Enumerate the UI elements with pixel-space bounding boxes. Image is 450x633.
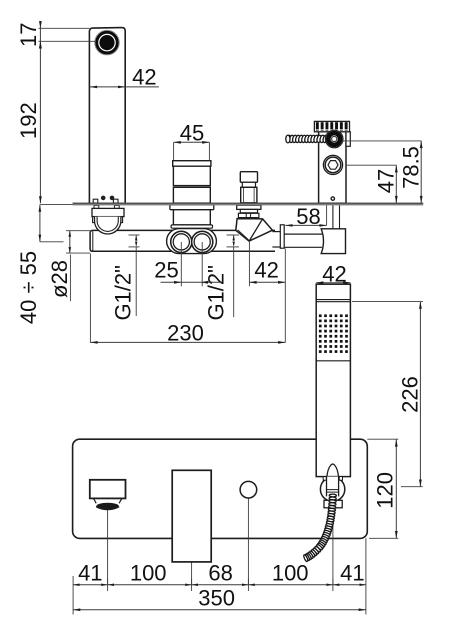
spout column outline <box>89 28 125 204</box>
dim line 45 <box>174 141 210 143</box>
dim line bottom row <box>73 584 366 586</box>
wire manifold tube outline <box>90 230 275 251</box>
spout aerator outer faint ring <box>95 30 120 55</box>
diverter cone body <box>236 219 273 242</box>
arrow dia28 top <box>69 231 72 237</box>
deck mounting surface <box>73 203 424 206</box>
hose stub end cap <box>286 135 290 143</box>
leader shower center <box>332 505 334 585</box>
spout clamp plate <box>92 208 124 216</box>
holder knurled cap <box>314 121 349 131</box>
bore line top left G12 <box>129 234 140 236</box>
wire cone-to-flange top <box>272 231 280 233</box>
deck top edge line <box>73 202 424 204</box>
bore line top right G12 <box>227 234 240 236</box>
diverter nut <box>238 213 259 217</box>
dim line 47 <box>395 165 397 203</box>
node right port circle inner <box>194 234 210 250</box>
ext line hose level <box>343 140 422 142</box>
control plate front <box>172 470 211 562</box>
knurl bars <box>316 122 319 131</box>
wire outlet pipe bottom <box>284 246 322 248</box>
arrow 42w right <box>343 281 350 284</box>
arrow 40-55 top <box>39 205 42 212</box>
spout aerator black disc <box>99 35 114 50</box>
cap hook left <box>175 166 177 169</box>
spout front lower lip <box>96 507 119 510</box>
clamp foot left <box>93 217 99 223</box>
holder neck step lower <box>327 491 339 493</box>
hose nut center <box>332 136 337 141</box>
dim line 42 spout <box>90 86 159 88</box>
cone left edge double line <box>238 230 249 240</box>
left G12 arrow up <box>135 235 137 240</box>
holder side tab <box>346 132 350 147</box>
left G12 leader <box>135 247 137 316</box>
node ports capsule <box>167 229 217 254</box>
ext line hex boss level <box>346 164 397 166</box>
ext line tube left end <box>89 254 91 343</box>
outlet pipe flange ring <box>280 225 284 248</box>
arrow 58 right <box>319 224 326 227</box>
leader spout front center <box>107 510 109 585</box>
arrow 350 right <box>359 608 366 611</box>
wire drop pipe right <box>339 205 341 229</box>
left G12 mini dim line <box>135 235 137 247</box>
clamp foot right <box>116 217 122 223</box>
arrow 47 top <box>395 165 398 172</box>
spout front mouth ellipse <box>96 503 119 510</box>
dim line 17 <box>39 21 41 49</box>
diverter collar <box>240 209 257 212</box>
svg-text:230: 230 <box>167 321 204 346</box>
arrow 25 right <box>201 281 208 284</box>
arrow 42d left <box>249 281 256 284</box>
right G12 arrow down <box>233 242 235 247</box>
arrow 226 bottom <box>419 480 422 487</box>
leader left port center <box>180 242 182 286</box>
arrow 42 spout left <box>90 86 97 89</box>
dim line 350 <box>73 609 366 611</box>
dim line 120 <box>395 439 397 538</box>
wire tube left end cap line <box>92 231 94 250</box>
spout base screw left <box>101 196 105 200</box>
clamp saddle inner arc <box>97 217 118 232</box>
knurl lower gap line <box>315 129 349 130</box>
cartridge retaining bar <box>171 225 212 228</box>
svg-text:41: 41 <box>340 560 364 585</box>
arrow 45 left <box>174 141 181 144</box>
dim line 78.5 <box>420 141 422 203</box>
dim line 25 <box>161 281 223 283</box>
svg-text:42: 42 <box>254 258 278 283</box>
dim line 230 <box>90 341 285 343</box>
ext line 58 right <box>326 205 328 225</box>
arrow 350 left <box>73 608 80 611</box>
ext line wand seam <box>352 301 423 303</box>
ext line tube top <box>66 230 90 232</box>
stem inner line right <box>253 188 255 202</box>
ext line aerator level <box>39 40 96 42</box>
leader control plate center <box>191 562 193 585</box>
cap hook right <box>206 166 208 169</box>
svg-text:40 ÷ 55: 40 ÷ 55 <box>16 251 41 324</box>
svg-text:ø28: ø28 <box>47 260 72 298</box>
ext line holder center <box>401 486 423 488</box>
svg-text:47: 47 <box>374 169 399 193</box>
arrow 226 top <box>419 302 422 309</box>
svg-text:120: 120 <box>373 472 398 509</box>
stem inner line left <box>243 188 245 202</box>
arrow dia28 bottom <box>69 247 72 253</box>
arrow 230 right <box>278 341 285 344</box>
ext line tube bottom <box>66 252 90 254</box>
arrow 42 spout right <box>118 86 125 89</box>
arrow 120 bottom <box>395 531 398 538</box>
svg-text:25: 25 <box>154 258 178 283</box>
cartridge seam line <box>173 186 210 188</box>
spout fixing rod right <box>114 205 119 208</box>
spout fixing rod left <box>94 205 99 208</box>
nut flat mark right <box>250 214 252 218</box>
cartridge top cap <box>173 161 211 167</box>
ext line cartridge left <box>173 142 175 160</box>
outlet hex <box>328 161 338 170</box>
shower wand front <box>316 284 350 476</box>
hose nut outer ring <box>325 130 343 148</box>
underline dia28 <box>69 255 71 302</box>
wire drop pipe left <box>332 205 334 229</box>
right G12 leader <box>233 247 235 317</box>
leader knob center <box>247 498 249 585</box>
holder neck right line <box>338 477 340 497</box>
arrow 17 bottom <box>39 41 42 48</box>
spout base nub left <box>93 199 98 203</box>
arrow 42d right <box>278 281 285 284</box>
svg-text:42: 42 <box>322 262 346 287</box>
diverter escutcheon <box>237 205 261 209</box>
svg-text:226: 226 <box>397 376 422 413</box>
dim line dia28 <box>69 231 71 253</box>
svg-text:G1/2": G1/2" <box>111 265 136 321</box>
bottom row tick marks <box>107 579 109 592</box>
wand seam upper <box>316 299 350 301</box>
ext line cone apex <box>248 242 250 286</box>
spout aerator thick ring <box>97 32 118 53</box>
holder neck step upper <box>327 489 339 491</box>
spout front taper <box>94 498 122 503</box>
arrow 78.5 top <box>420 141 423 148</box>
nut flat mark left <box>245 214 247 218</box>
svg-text:100: 100 <box>130 560 167 585</box>
holder ring <box>320 477 344 501</box>
spout base screw right <box>110 196 114 200</box>
arrow 42w left <box>316 281 323 284</box>
bottom row arrows <box>73 584 79 587</box>
svg-text:17: 17 <box>16 23 41 47</box>
arrow 40-55 bottom <box>39 235 42 242</box>
clamp saddle outer arc <box>95 217 121 234</box>
holder top clip right <box>339 477 342 481</box>
svg-text:G1/2": G1/2" <box>204 265 229 321</box>
wand handle teardrop <box>327 464 339 477</box>
wand spray panel bottom line <box>316 360 350 362</box>
diverter knob stem <box>241 187 257 203</box>
leader right port center <box>201 242 203 286</box>
holder neck left line <box>326 477 328 497</box>
hose stub corrugated ribs <box>286 135 292 143</box>
cartridge under-deck body <box>173 210 210 225</box>
right G12 mini dim line <box>233 235 235 247</box>
svg-text:68: 68 <box>208 560 232 585</box>
diverter knob neck <box>242 182 255 187</box>
ext line plate right edge <box>365 538 367 614</box>
cartridge lower section <box>173 187 210 203</box>
arrow 45 right <box>202 141 209 144</box>
spout base nub right <box>113 199 118 203</box>
hose nut dark ring <box>328 133 340 145</box>
wall plate front <box>73 439 368 538</box>
wire outlet pipe top <box>284 233 322 235</box>
svg-text:100: 100 <box>272 560 309 585</box>
ext line spout top <box>39 27 90 29</box>
cartridge deck flange <box>170 205 214 210</box>
holder neck mask <box>327 477 339 497</box>
diverter knob cap <box>240 172 257 183</box>
holder body screw dot <box>331 197 334 200</box>
svg-text:58: 58 <box>296 204 320 229</box>
right G12 arrow up <box>233 235 235 240</box>
outlet hex boss inner ring <box>325 157 341 173</box>
node right port circle outer <box>192 231 213 252</box>
left G12 arrow down <box>135 242 137 247</box>
dim line 192 <box>39 41 41 203</box>
ext line plate left edge <box>72 576 74 615</box>
ext line cartridge right <box>208 142 210 160</box>
ext line plate bottom <box>369 537 398 539</box>
svg-text:45: 45 <box>180 120 204 145</box>
svg-text:350: 350 <box>198 585 235 610</box>
ext line pipe joint <box>284 249 286 343</box>
svg-text:42: 42 <box>132 64 156 89</box>
manifold right end block <box>321 229 345 254</box>
node left port circle inner <box>173 234 189 250</box>
node left port circle outer <box>171 231 192 252</box>
holder top clip left <box>323 477 326 481</box>
diverter knob front <box>240 481 257 498</box>
svg-text:78.5: 78.5 <box>398 146 423 189</box>
bore line bottom left G12 <box>129 246 140 248</box>
dim line 58 <box>285 224 326 226</box>
shower holder body <box>319 132 346 204</box>
ext line plate top <box>367 438 398 440</box>
wire cone-to-flange bottom <box>272 246 280 248</box>
ext line deck left <box>40 204 72 206</box>
dim line 40-55 <box>39 204 41 241</box>
arrow 47 bottom <box>395 196 398 203</box>
arrow 58 left <box>285 224 292 227</box>
arrow 25 left <box>174 281 181 284</box>
arrow 192 bottom <box>39 196 42 203</box>
wand seam lower <box>316 301 350 303</box>
dim line 42 diverter <box>249 281 285 283</box>
spout front body <box>90 480 126 499</box>
arrow 78.5 bottom <box>420 196 423 203</box>
spray face grid <box>319 314 322 317</box>
cartridge mid section <box>173 166 210 185</box>
outlet hex boss outer circle <box>323 155 342 174</box>
svg-text:192: 192 <box>16 102 41 139</box>
arrow 192 top <box>39 41 42 48</box>
holder bracket <box>324 500 342 508</box>
dim line 42 wand <box>316 282 350 284</box>
arrow 17 top <box>39 21 42 28</box>
dim line 226 <box>419 302 421 487</box>
cone facet line <box>249 219 263 241</box>
bore line bottom right G12 <box>227 246 240 248</box>
ext line max deck thickness <box>40 241 64 243</box>
hand shower hose front ribs <box>329 494 336 497</box>
arrow 120 top <box>395 439 398 446</box>
arrow 230 left <box>90 341 97 344</box>
svg-text:41: 41 <box>78 560 102 585</box>
